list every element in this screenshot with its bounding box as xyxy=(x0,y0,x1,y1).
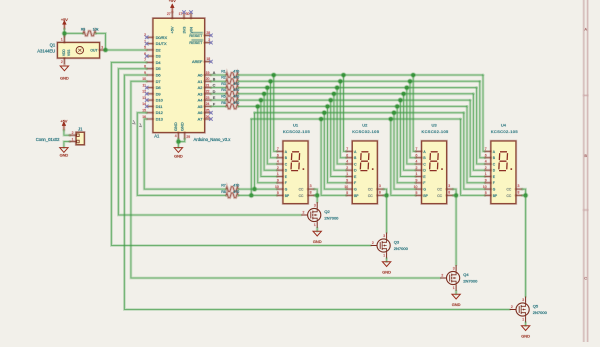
svg-text:D6: D6 xyxy=(156,73,161,78)
svg-text:+5V: +5V xyxy=(60,118,67,123)
MCU pin 8 D5 xyxy=(147,67,153,70)
svg-text:1: 1 xyxy=(277,172,279,176)
U3 pin 6 B xyxy=(416,156,422,159)
junction net BP at R8 xyxy=(249,193,255,199)
svg-text:9: 9 xyxy=(277,179,279,183)
wire drop net C to U4 xyxy=(477,88,486,164)
svg-text:VIN: VIN xyxy=(188,27,193,34)
wire segment net G horizontal bus xyxy=(255,111,464,114)
junction net A tap U3 xyxy=(410,72,416,78)
svg-text:+5V: +5V xyxy=(169,0,176,3)
wire MCU D5 to Q2 gate xyxy=(118,69,301,215)
wire MCU D12 to R8 xyxy=(137,113,226,196)
svg-text:A1: A1 xyxy=(198,79,203,84)
svg-text:470: 470 xyxy=(233,184,239,188)
MCU pin 4 GND (bottom) xyxy=(177,133,180,139)
junction net A tap U1 xyxy=(271,72,277,78)
junction CC net U2 xyxy=(384,193,390,199)
svg-text:A0: A0 xyxy=(198,73,204,78)
svg-text:CC: CC xyxy=(507,194,512,198)
U1 pin 3 CC xyxy=(308,188,314,191)
svg-text:CC: CC xyxy=(437,188,442,192)
MCU pin 22 A3 xyxy=(205,92,211,95)
junction net C tap U1 xyxy=(265,85,271,91)
U2 pin 6 B xyxy=(347,156,353,159)
display U3 body xyxy=(421,140,447,204)
svg-text:4: 4 xyxy=(485,160,487,164)
svg-text:2: 2 xyxy=(303,210,305,214)
svg-text:3: 3 xyxy=(522,298,524,302)
wire MCU D13 to R7 xyxy=(144,119,226,189)
hall sensor Q1 body xyxy=(57,42,100,59)
svg-text:D12: D12 xyxy=(156,110,163,115)
U3 pin 7 A xyxy=(416,150,422,153)
svg-text:6: 6 xyxy=(277,153,279,157)
junction net F tap U3 xyxy=(394,104,400,110)
U3 seven segment digit glyph xyxy=(430,152,439,171)
svg-text:5: 5 xyxy=(416,191,418,195)
J1 pin 1 stub xyxy=(70,140,76,143)
U3 pin 2 D xyxy=(416,169,422,172)
transistor Q5 2N7000 xyxy=(510,297,530,323)
MCU pin 17 3V3 (top) xyxy=(183,12,186,18)
svg-text:2N7000: 2N7000 xyxy=(533,310,548,315)
MCU pin 3 RESET xyxy=(205,41,211,44)
junction net A tap U2 xyxy=(341,72,347,78)
MCU pin 15 D12 xyxy=(147,111,153,114)
resistor R8 470 xyxy=(226,193,238,198)
wire R8 to U1 pin BP xyxy=(238,194,277,197)
svg-text:A1: A1 xyxy=(154,134,160,139)
MCU pin 21 A2 xyxy=(205,86,211,89)
MCU pin 9 D6 xyxy=(147,74,153,77)
MCU pin 7 D4 xyxy=(147,61,153,64)
wire MCU D7 to Q4 gate xyxy=(131,81,440,278)
svg-text:4: 4 xyxy=(277,160,279,164)
svg-text:G: G xyxy=(493,188,496,192)
U4 pin 8 CC xyxy=(516,194,522,197)
junction net C tap U3 xyxy=(404,85,410,91)
svg-text:D9: D9 xyxy=(156,91,161,96)
U4 pin 9 F xyxy=(485,181,491,184)
svg-text:1: 1 xyxy=(314,223,316,227)
wire MCU A4 to R5 xyxy=(211,99,226,102)
svg-text:R2: R2 xyxy=(221,76,226,80)
svg-text:CC: CC xyxy=(299,188,304,192)
Q1 pin 1 stub (top) xyxy=(63,36,66,42)
svg-text:9: 9 xyxy=(416,179,418,183)
svg-text:10: 10 xyxy=(414,185,418,189)
wire drop net F to U4 xyxy=(467,106,485,182)
wire segment net F horizontal bus xyxy=(238,105,467,108)
svg-text:10: 10 xyxy=(483,185,487,189)
wire drop net BP to U4 xyxy=(461,119,486,195)
U1 pin 10 G xyxy=(277,188,283,191)
svg-text:A6: A6 xyxy=(198,110,203,115)
wire drop net B to U4 xyxy=(480,81,485,157)
wire drop net G to U4 xyxy=(464,113,485,189)
U1 pin 9 F xyxy=(277,181,283,184)
svg-text:5: 5 xyxy=(346,191,348,195)
wire drop net E to U4 xyxy=(470,100,485,176)
U2 seven segment digit glyph xyxy=(360,152,369,171)
svg-text:21: 21 xyxy=(206,83,210,87)
wire drop net D to U3 xyxy=(404,94,416,170)
svg-text:GND: GND xyxy=(60,76,69,81)
wire Q3 source to ground xyxy=(385,259,388,262)
U1 pin 8 CC xyxy=(308,194,314,197)
transistor Q3 2N7000 xyxy=(371,233,391,259)
junction CC net U1 xyxy=(314,193,320,199)
resistor R7 470 xyxy=(226,187,238,192)
svg-text:R7: R7 xyxy=(221,184,226,188)
MCU pin 16 D13 xyxy=(147,118,153,121)
U4 pin 10 G xyxy=(485,188,491,191)
U1 pin 6 B xyxy=(277,156,283,159)
U1 pin 4 C xyxy=(277,163,283,166)
svg-text:26: 26 xyxy=(206,115,210,119)
wire MCU A2 to R3 xyxy=(211,86,226,89)
svg-text:4: 4 xyxy=(175,134,177,138)
svg-text:2: 2 xyxy=(61,60,63,64)
svg-text:VSS: VSS xyxy=(67,50,71,56)
svg-text:5: 5 xyxy=(277,191,279,195)
svg-text:Q2: Q2 xyxy=(324,209,330,214)
Q1 hall element circle xyxy=(76,47,83,54)
junction net G tap U3 xyxy=(391,110,397,116)
wire drop net BP to U3 xyxy=(391,119,416,195)
svg-text:GND: GND xyxy=(521,334,530,339)
junction net D tap U3 xyxy=(401,91,407,97)
svg-text:3: 3 xyxy=(448,184,450,188)
wire drop net A to U2 xyxy=(344,75,347,151)
svg-text:2: 2 xyxy=(416,166,418,170)
svg-text:D: D xyxy=(213,90,216,94)
U1 pin 7 A xyxy=(277,150,283,153)
junction net BP tap U3 xyxy=(388,116,394,122)
svg-text:R3: R3 xyxy=(221,82,226,86)
wire drop net F to U1 xyxy=(258,106,278,182)
svg-text:R8: R8 xyxy=(221,190,226,194)
ground symbol below Q1 xyxy=(60,66,68,71)
ground symbol below J1 xyxy=(60,148,68,153)
junction +5V / R9 xyxy=(62,31,68,37)
svg-text:KCSC02-105: KCSC02-105 xyxy=(422,129,449,134)
svg-text:27: 27 xyxy=(167,12,171,16)
ground symbol below Q2 xyxy=(313,231,321,236)
U2 pin 2 D xyxy=(347,169,353,172)
svg-text:1: 1 xyxy=(416,172,418,176)
U4 pin 6 B xyxy=(485,156,491,159)
svg-text:+5V: +5V xyxy=(170,26,175,33)
svg-text:29: 29 xyxy=(186,135,190,139)
svg-text:22: 22 xyxy=(206,90,210,94)
junction OUT / R9 xyxy=(103,47,109,53)
wire drop net B to U1 xyxy=(271,81,278,157)
svg-text:U4: U4 xyxy=(501,123,507,128)
svg-text:9: 9 xyxy=(346,179,348,183)
MCU pin 30 VIN (top) xyxy=(190,12,193,18)
svg-text:3V3: 3V3 xyxy=(181,27,186,34)
wire U3 CC to Q4 drain xyxy=(453,189,456,195)
wire segment net A horizontal bus xyxy=(238,74,483,77)
U1 pin 2 D xyxy=(277,169,283,172)
wire segment net BP horizontal bus xyxy=(251,118,460,121)
svg-text:G: G xyxy=(423,188,426,192)
svg-text:C: C xyxy=(584,276,587,280)
svg-text:Q4: Q4 xyxy=(463,272,469,277)
wire Q2 source to ground xyxy=(316,228,319,231)
wire segment net D horizontal bus xyxy=(238,92,473,95)
U3 pin 8 CC xyxy=(447,194,453,197)
junction net BP tap U2 xyxy=(318,116,324,122)
resistor R1 470 xyxy=(226,73,238,78)
wire Q4 source to ground xyxy=(455,291,458,294)
svg-text:J1: J1 xyxy=(78,127,83,132)
svg-text:10: 10 xyxy=(275,185,279,189)
svg-text:8: 8 xyxy=(518,190,520,194)
power +5V symbol at MCU top pin xyxy=(171,8,174,13)
svg-text:D8: D8 xyxy=(156,85,161,90)
junction net G tap U2 xyxy=(322,110,328,116)
svg-text:2: 2 xyxy=(372,241,374,245)
MCU pin 24 A5 xyxy=(205,105,211,108)
resistor R3 470 xyxy=(226,85,238,90)
junction net B tap U1 xyxy=(268,79,274,85)
svg-text:2: 2 xyxy=(72,131,74,135)
svg-text:A2: A2 xyxy=(198,85,203,90)
resistor R6 470 xyxy=(226,104,238,109)
svg-text:6: 6 xyxy=(416,153,418,157)
svg-text:4: 4 xyxy=(346,160,348,164)
MCU pin 26 A7 xyxy=(205,118,211,121)
junction net E tap U1 xyxy=(258,97,264,103)
svg-text:A3: A3 xyxy=(198,91,203,96)
svg-text:6: 6 xyxy=(346,153,348,157)
svg-text:3: 3 xyxy=(314,204,316,208)
svg-text:D11: D11 xyxy=(156,104,163,109)
svg-text:GND: GND xyxy=(60,153,69,158)
junction net D tap U2 xyxy=(331,91,337,97)
svg-text:3: 3 xyxy=(310,184,312,188)
svg-text:D1/TX: D1/TX xyxy=(156,41,167,46)
svg-text:G: G xyxy=(285,188,288,192)
svg-text:19: 19 xyxy=(206,71,210,75)
junction net F tap U1 xyxy=(255,104,261,110)
svg-text:GND: GND xyxy=(382,270,391,275)
junction net D tap U1 xyxy=(261,91,267,97)
svg-text:F: F xyxy=(354,181,356,185)
wire MCU A0 to R1 xyxy=(211,74,226,77)
svg-text:2: 2 xyxy=(485,166,487,170)
wire segment net B horizontal bus xyxy=(238,80,480,83)
svg-text:2N7000: 2N7000 xyxy=(394,246,409,251)
svg-text:CC: CC xyxy=(507,188,512,192)
svg-text:GND: GND xyxy=(174,153,183,158)
svg-text:D13: D13 xyxy=(156,117,163,122)
svg-text:8: 8 xyxy=(448,190,450,194)
wire drop net C to U3 xyxy=(407,88,416,164)
svg-text:10k: 10k xyxy=(93,28,99,32)
U4 seven segment digit glyph xyxy=(499,152,508,171)
MCU pin 2 D0/RX xyxy=(147,36,153,39)
svg-text:E: E xyxy=(213,96,216,100)
svg-text:3: 3 xyxy=(453,267,455,271)
MCU pin 10 D7 xyxy=(147,80,153,83)
wire drop net C to U1 xyxy=(267,88,277,164)
svg-text:7: 7 xyxy=(485,147,487,151)
svg-text:R4: R4 xyxy=(221,88,226,92)
wire R9 to OUT node xyxy=(96,33,106,50)
U2 pin 9 F xyxy=(347,181,353,184)
svg-text:470: 470 xyxy=(233,69,239,73)
wire R7 to U1 pin G xyxy=(238,188,277,191)
svg-text:7: 7 xyxy=(416,147,418,151)
svg-text:KCSC02-105: KCSC02-105 xyxy=(491,129,518,134)
U1 pin 1 E xyxy=(277,175,283,178)
junction net B tap U3 xyxy=(407,79,413,85)
wire MCU GND down xyxy=(177,139,180,148)
wire drop net A to U1 xyxy=(274,75,278,151)
wire drop net BP to U2 xyxy=(321,119,346,195)
junction net C tap U2 xyxy=(334,85,340,91)
svg-text:CC: CC xyxy=(299,194,304,198)
wire Q5 source to ground xyxy=(524,323,527,326)
MCU pin 28 RESET xyxy=(205,34,211,37)
svg-text:AREF: AREF xyxy=(192,59,203,64)
resistor R4 470 xyxy=(226,92,238,97)
U4 pin 3 CC xyxy=(516,188,522,191)
resistor R9 xyxy=(83,31,96,36)
svg-text:1: 1 xyxy=(346,172,348,176)
svg-text:25: 25 xyxy=(206,109,210,113)
MCU pin 20 A1 xyxy=(205,80,211,83)
svg-text:CC: CC xyxy=(368,194,373,198)
svg-text:3: 3 xyxy=(101,45,103,49)
svg-text:D5: D5 xyxy=(156,66,161,71)
wire drop net A to U4 xyxy=(483,75,485,151)
junction net E tap U2 xyxy=(328,97,334,103)
U2 pin 3 CC xyxy=(377,188,383,191)
wire drop net G to U2 xyxy=(324,113,346,189)
svg-text:F: F xyxy=(493,181,495,185)
svg-text:OUT: OUT xyxy=(90,49,97,53)
junction CC net U4 xyxy=(523,193,529,199)
resistor R2 470 xyxy=(226,79,238,84)
svg-text:U1: U1 xyxy=(293,123,299,128)
svg-text:U3: U3 xyxy=(432,123,438,128)
wire drop net D to U4 xyxy=(473,94,485,170)
svg-text:A3144EU: A3144EU xyxy=(37,49,55,54)
svg-text:GND: GND xyxy=(313,239,322,244)
ground symbol below Q5 xyxy=(521,326,529,331)
svg-text:2N7000: 2N7000 xyxy=(324,215,339,220)
svg-text:20: 20 xyxy=(206,77,210,81)
U3 pin 4 C xyxy=(416,163,422,166)
wire drop net G to U3 xyxy=(394,113,416,189)
svg-text:2: 2 xyxy=(277,166,279,170)
svg-text:GND: GND xyxy=(173,122,178,131)
junction net G at R7 xyxy=(252,186,258,192)
svg-text:1: 1 xyxy=(61,38,63,42)
display U1 body xyxy=(282,140,308,204)
wire drop net D to U1 xyxy=(264,94,277,170)
ground symbol below Q3 xyxy=(382,262,390,267)
MCU pin 5 D2 xyxy=(147,49,153,52)
wire drop net F to U3 xyxy=(397,106,416,182)
MCU pin 19 A0 xyxy=(205,74,211,77)
svg-text:8: 8 xyxy=(310,190,312,194)
wire OUT to MCU D2 xyxy=(106,49,147,52)
U2 pin 1 E xyxy=(347,175,353,178)
svg-text:Q3: Q3 xyxy=(394,240,400,245)
svg-text:R1: R1 xyxy=(221,69,226,73)
svg-text:D10: D10 xyxy=(156,98,164,103)
U3 pin 3 CC xyxy=(447,188,453,191)
wire MCU D4 to Q3 gate xyxy=(111,62,370,245)
svg-text:VDD: VDD xyxy=(62,49,66,56)
wire joining MCU GND pins xyxy=(178,139,184,142)
svg-text:Arduino_Nano_v3.x: Arduino_Nano_v3.x xyxy=(194,137,232,142)
svg-text:1: 1 xyxy=(522,318,524,322)
svg-text:1: 1 xyxy=(383,254,385,258)
junction MCU GND xyxy=(176,139,182,145)
svg-text:9: 9 xyxy=(485,179,487,183)
wire drop net D to U2 xyxy=(334,94,347,170)
svg-text:A4: A4 xyxy=(198,98,204,103)
MCU A1 Arduino Nano body xyxy=(152,18,205,133)
svg-text:F: F xyxy=(423,181,425,185)
wire drop net E to U1 xyxy=(261,100,277,176)
svg-text:3: 3 xyxy=(379,184,381,188)
MCU pin 1 D1/TX xyxy=(147,42,153,45)
wire MCU D6 to Q5 gate xyxy=(124,75,509,310)
U2 pin 7 A xyxy=(347,150,353,153)
svg-text:A5: A5 xyxy=(198,104,203,109)
U2 pin 4 C xyxy=(347,163,353,166)
svg-text:+5V: +5V xyxy=(61,17,68,22)
svg-text:CC: CC xyxy=(368,188,373,192)
svg-text:U2: U2 xyxy=(362,123,368,128)
svg-text:R9: R9 xyxy=(81,28,86,32)
svg-text:1: 1 xyxy=(485,172,487,176)
U3 pin 5 BP xyxy=(416,194,422,197)
svg-text:23: 23 xyxy=(206,96,210,100)
MCU pin 29 GND (bottom) xyxy=(183,133,186,139)
display U4 body xyxy=(490,140,516,204)
U3 pin 10 G xyxy=(416,188,422,191)
wire U2 CC to Q3 drain xyxy=(384,189,387,195)
svg-text:GND: GND xyxy=(452,302,461,307)
wire U4 CC to Q5 drain xyxy=(522,189,525,195)
U1 pin 5 BP xyxy=(277,194,283,197)
svg-text:7: 7 xyxy=(277,147,279,151)
svg-text:3: 3 xyxy=(518,184,520,188)
svg-text:24: 24 xyxy=(206,102,210,106)
svg-text:10: 10 xyxy=(344,185,348,189)
MCU pin 27 +5V (top) xyxy=(171,12,174,18)
svg-text:6: 6 xyxy=(485,153,487,157)
wire net BP riser from R8 xyxy=(250,119,253,195)
svg-text:30: 30 xyxy=(186,12,190,16)
svg-text:3: 3 xyxy=(383,234,385,238)
svg-text:A: A xyxy=(213,71,216,75)
ground symbol below Q4 xyxy=(452,294,460,299)
wire drop net C to U2 xyxy=(337,88,346,164)
svg-text:C: C xyxy=(213,84,216,88)
U4 pin 1 E xyxy=(485,175,491,178)
U2 pin 5 BP xyxy=(347,194,353,197)
